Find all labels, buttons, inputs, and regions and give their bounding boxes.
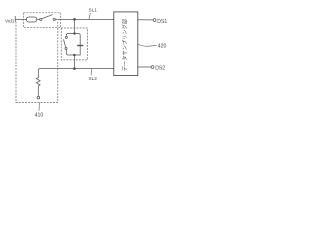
leader line 410 <box>38 103 40 111</box>
dashed box 410 left edge <box>15 22 17 103</box>
wire SL2 with corner down to resistor <box>38 69 114 78</box>
switch SW1 blade (open, tilted up-right) <box>42 15 52 19</box>
svg-text:420: 420 <box>158 44 167 50</box>
junction dot on SL1 wire <box>73 18 76 21</box>
terminal tick at Vid1 input <box>14 16 16 21</box>
capacitor C (crossbar on right branch) <box>78 45 83 47</box>
top rail of switch/cap pair <box>66 34 80 56</box>
svg-text:410: 410 <box>35 112 44 118</box>
svg-text:SL2: SL2 <box>89 76 98 81</box>
bottom rail of switch/cap pair <box>66 50 80 55</box>
switch SW1 right contact circle <box>53 18 55 20</box>
leader line SL2 <box>90 69 93 75</box>
svg-text:データサンプリング部: データサンプリング部 <box>122 19 129 71</box>
wire junction down into pixel box <box>74 19 76 33</box>
terminal circle DS2 <box>151 66 154 69</box>
dashed box 430 (switch block top-left) <box>24 13 61 28</box>
leader line 420 <box>138 44 156 46</box>
terminal circle DS1 <box>153 19 156 22</box>
dashed box 410 right edge <box>57 22 59 103</box>
switch SW2 blade (open, tilted left) <box>64 40 66 47</box>
svg-text:DS1: DS1 <box>157 19 167 25</box>
data sampling block 420 box <box>114 12 138 76</box>
fuse/oval component inside top dashed box <box>26 17 37 22</box>
junction dot on SL2 wire <box>73 67 76 70</box>
wire from bottom rail down to SL2 wire <box>73 55 75 69</box>
wire from Vid1 tick to oval component <box>15 18 26 20</box>
svg-text:DS2: DS2 <box>155 65 165 71</box>
wire to DS1 output <box>138 19 153 21</box>
wire to DS2 output <box>138 66 151 68</box>
switch SW2 lower contact circle <box>65 47 67 49</box>
svg-text:Vid1: Vid1 <box>5 18 15 23</box>
wire SL1 from switch to data box <box>55 18 113 20</box>
switch SW2 upper contact circle <box>65 36 67 38</box>
resistor bottom terminal circle <box>37 96 40 99</box>
switch SW1 left contact circle <box>40 18 42 20</box>
dashed box 440 (pixel block middle) <box>61 28 87 60</box>
dashed box 410 bottom edge <box>16 102 58 104</box>
junction dot at bottom rail <box>73 54 76 57</box>
resistor R (zigzag) <box>36 78 40 97</box>
svg-text:SL1: SL1 <box>89 8 98 13</box>
leader line SL1 <box>89 13 90 19</box>
junction dot at top rail <box>73 32 76 35</box>
wire oval to switch contact <box>37 18 40 20</box>
